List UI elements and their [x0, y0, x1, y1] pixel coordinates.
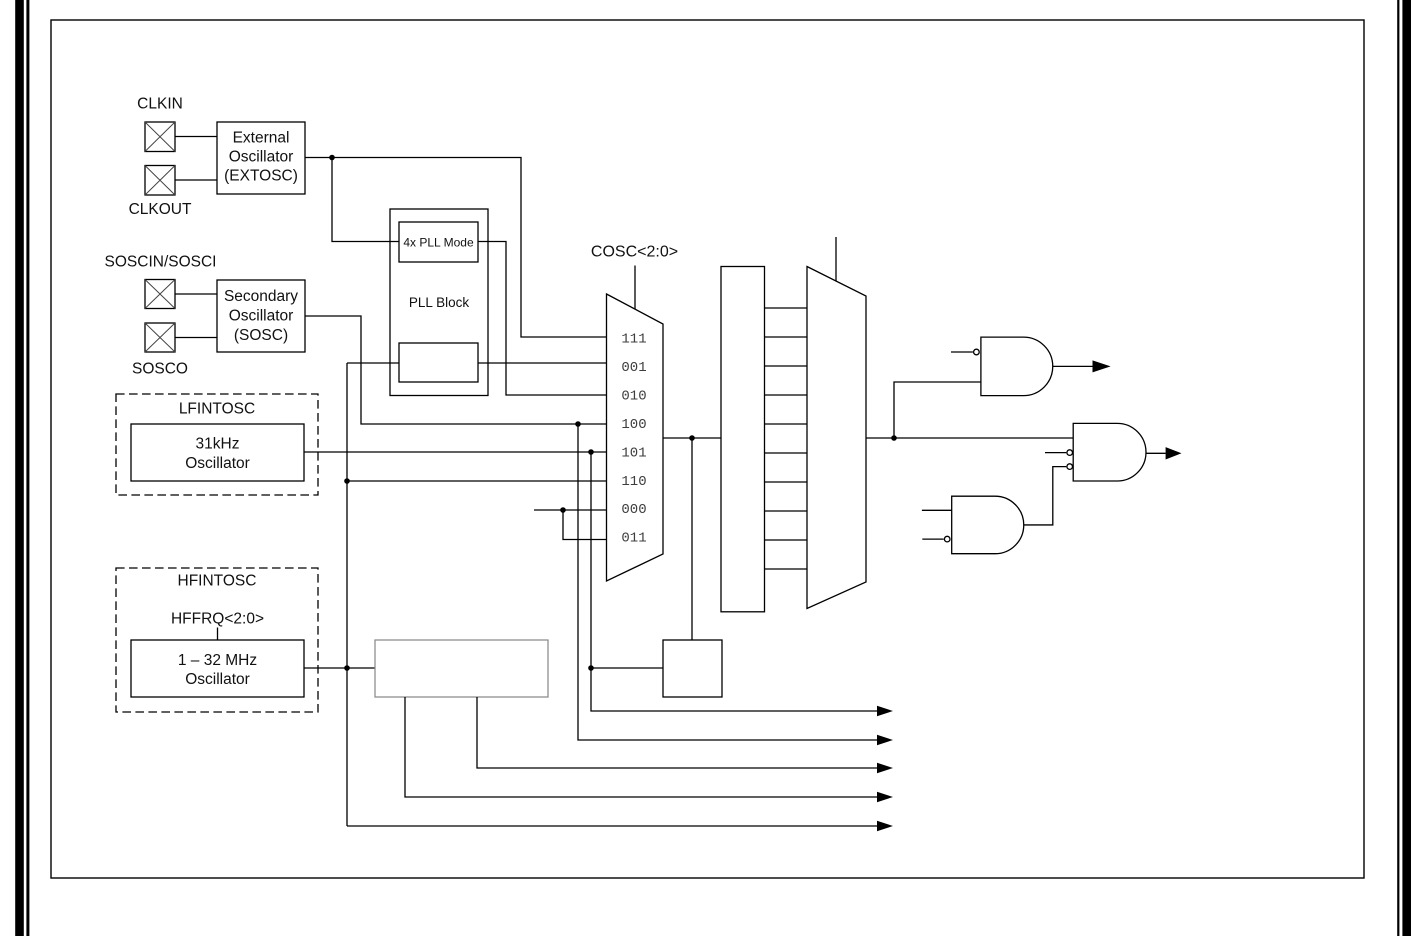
arrow U1 output [1093, 360, 1111, 372]
gate U2 input bubble [944, 536, 950, 542]
wire to mux input 110 [347, 480, 607, 482]
svg-text:(EXTOSC): (EXTOSC) [224, 168, 298, 185]
mux 2 trapezoid [807, 267, 866, 609]
svg-text:Secondary: Secondary [224, 288, 298, 305]
wire 000 to mux input 011 [563, 510, 607, 540]
block 31kHz Oscillator [131, 424, 304, 481]
wire U2 output to U3 [1024, 467, 1067, 525]
node junction 000 [560, 507, 566, 513]
svg-text:1 – 32 MHz: 1 – 32 MHz [178, 652, 257, 669]
wire up to gate1 [894, 382, 981, 438]
node junction 110 [344, 478, 350, 484]
wire SOSC output to mux input 100 [305, 316, 607, 424]
block 4x PLL Mode [399, 222, 478, 262]
svg-text:Oscillator: Oscillator [185, 455, 250, 472]
svg-text:4x PLL Mode: 4x PLL Mode [403, 236, 474, 250]
gate U3 AND with two inverted inputs [1073, 423, 1146, 481]
node mux1 output junction [689, 435, 695, 441]
node EXTOSC junction [329, 155, 335, 161]
block HFINTOSC dashed [116, 568, 318, 712]
wire U3 output [1146, 452, 1166, 454]
arrow bottom 5 [877, 821, 893, 831]
page right thick border bar [1402, 0, 1411, 936]
wire 100 branch down [578, 424, 877, 740]
wire U1 output [1053, 365, 1093, 367]
svg-text:LFINTOSC: LFINTOSC [179, 401, 255, 418]
wire bus rung 5 [765, 423, 808, 425]
wire U2 bottom input stub [922, 538, 943, 540]
wire into PLL divider [347, 362, 399, 364]
gate U3 bubble middle input [1067, 450, 1073, 456]
block HF postscaler (gray) [375, 640, 548, 697]
wire HFINTOSC output to divider [304, 667, 375, 669]
mux 1 trapezoid [607, 294, 664, 581]
wire LFINTOSC output to mux input 101 [304, 451, 607, 453]
wire HFINTOSC to bottom arrow [347, 825, 877, 827]
svg-text:PLL Block: PLL Block [409, 295, 470, 310]
wire EXTOSC to 4x PLL Mode [332, 158, 399, 242]
wire SOSCO pin to SOSC [175, 337, 217, 339]
block External Oscillator (EXTOSC) [217, 122, 305, 194]
block Secondary Oscillator (SOSC) [217, 280, 305, 352]
block PLL Block outer [390, 209, 488, 396]
wire CLKIN pin to EXTOSC [175, 136, 217, 138]
wire HFFRQ stub [217, 628, 219, 641]
wire branch to small box [591, 667, 663, 669]
svg-text:100: 100 [621, 417, 646, 433]
wire bus rung 2 [765, 336, 808, 338]
svg-text:010: 010 [621, 389, 646, 405]
page right thin border bar [1397, 0, 1399, 936]
gate U1 input bubble [974, 349, 980, 355]
wire 4x PLL Mode output to mux input 010 [478, 242, 607, 396]
svg-text:SOSCO: SOSCO [132, 361, 188, 378]
node junction at small box [588, 665, 594, 671]
block tall rectangle [721, 267, 765, 612]
wire postscaler tap 1 [405, 697, 877, 797]
wire mux1 output [663, 437, 721, 439]
node HFINTOSC junction [344, 665, 350, 671]
arrow bottom 3 [877, 763, 893, 773]
node junction mux input 101 [588, 449, 594, 455]
svg-text:110: 110 [621, 474, 646, 490]
page left thick border bar [15, 0, 24, 936]
svg-text:CLKIN: CLKIN [137, 96, 183, 113]
wire COSC select [634, 266, 636, 310]
wire PLL divider output to mux input 001 [478, 362, 607, 364]
svg-text:CLKOUT: CLKOUT [129, 201, 192, 218]
wire bus rung 8 [765, 510, 808, 512]
wire bus rung 1 [765, 307, 808, 309]
wire EXTOSC output [305, 158, 607, 338]
svg-text:111: 111 [621, 332, 646, 348]
wire bus rung 6 [765, 452, 808, 454]
wire bus rung 7 [765, 481, 808, 483]
svg-text:000: 000 [621, 502, 646, 518]
svg-text:31kHz: 31kHz [196, 436, 240, 453]
svg-text:011: 011 [621, 531, 646, 547]
svg-text:Oscillator: Oscillator [229, 148, 294, 165]
wire bus rung 10 [765, 568, 808, 570]
svg-text:001: 001 [621, 360, 646, 376]
node mux2 output junction [891, 435, 897, 441]
pin symbol SOSCO [145, 323, 175, 352]
svg-text:External: External [233, 129, 290, 146]
block 1-32 MHz Oscillator [131, 640, 304, 697]
arrow bottom 4 [877, 792, 893, 802]
wire HFINTOSC branch vertical [346, 363, 348, 826]
svg-text:HFFRQ<2:0>: HFFRQ<2:0> [171, 611, 264, 628]
mux1 input labels [621, 332, 646, 547]
svg-text:101: 101 [621, 446, 646, 462]
block small divider box [663, 640, 722, 697]
svg-text:COSC<2:0>: COSC<2:0> [591, 244, 678, 261]
wire U2 top input stub [922, 509, 952, 511]
wire bus rung 4 [765, 394, 808, 396]
wire U3 middle input stub [1045, 452, 1066, 454]
wire bus rung 3 [765, 365, 808, 367]
wire mux2 select [835, 237, 837, 281]
wire bus rung 9 [765, 539, 808, 541]
wire postscaler tap 2 [477, 697, 877, 768]
svg-text:Oscillator: Oscillator [229, 307, 294, 324]
wire SOSCIN pin to SOSC [175, 293, 217, 295]
wire 101 branch down [591, 452, 877, 711]
arrow U3 output [1166, 447, 1182, 459]
node junction mux input 100 [575, 421, 581, 427]
wire CLKOUT pin to EXTOSC [175, 179, 217, 181]
block LFINTOSC dashed [116, 394, 318, 495]
pin symbol CLKIN [145, 122, 175, 152]
svg-text:SOSCIN/SOSCI: SOSCIN/SOSCI [105, 254, 217, 271]
wire down to small box [691, 438, 693, 640]
gate U2 AND with inverted bottom input [952, 496, 1024, 554]
block PLL divider [399, 343, 478, 382]
arrow bottom 1 [877, 706, 893, 716]
svg-text:HFINTOSC: HFINTOSC [178, 573, 257, 590]
pin symbol SOSCIN [145, 280, 175, 309]
pin symbol CLKOUT [145, 166, 175, 196]
gate U3 bubble bottom input [1067, 464, 1073, 470]
gate U1 AND with inverted top input [981, 337, 1053, 396]
svg-text:Oscillator: Oscillator [185, 671, 250, 688]
svg-text:(SOSC): (SOSC) [234, 327, 288, 344]
wire stub to mux input 000 [534, 509, 607, 511]
page left thin border bar [26, 0, 29, 936]
wire mux2 output [866, 437, 1073, 439]
wire U1 top input stub [951, 351, 973, 353]
arrow bottom 2 [877, 735, 893, 745]
